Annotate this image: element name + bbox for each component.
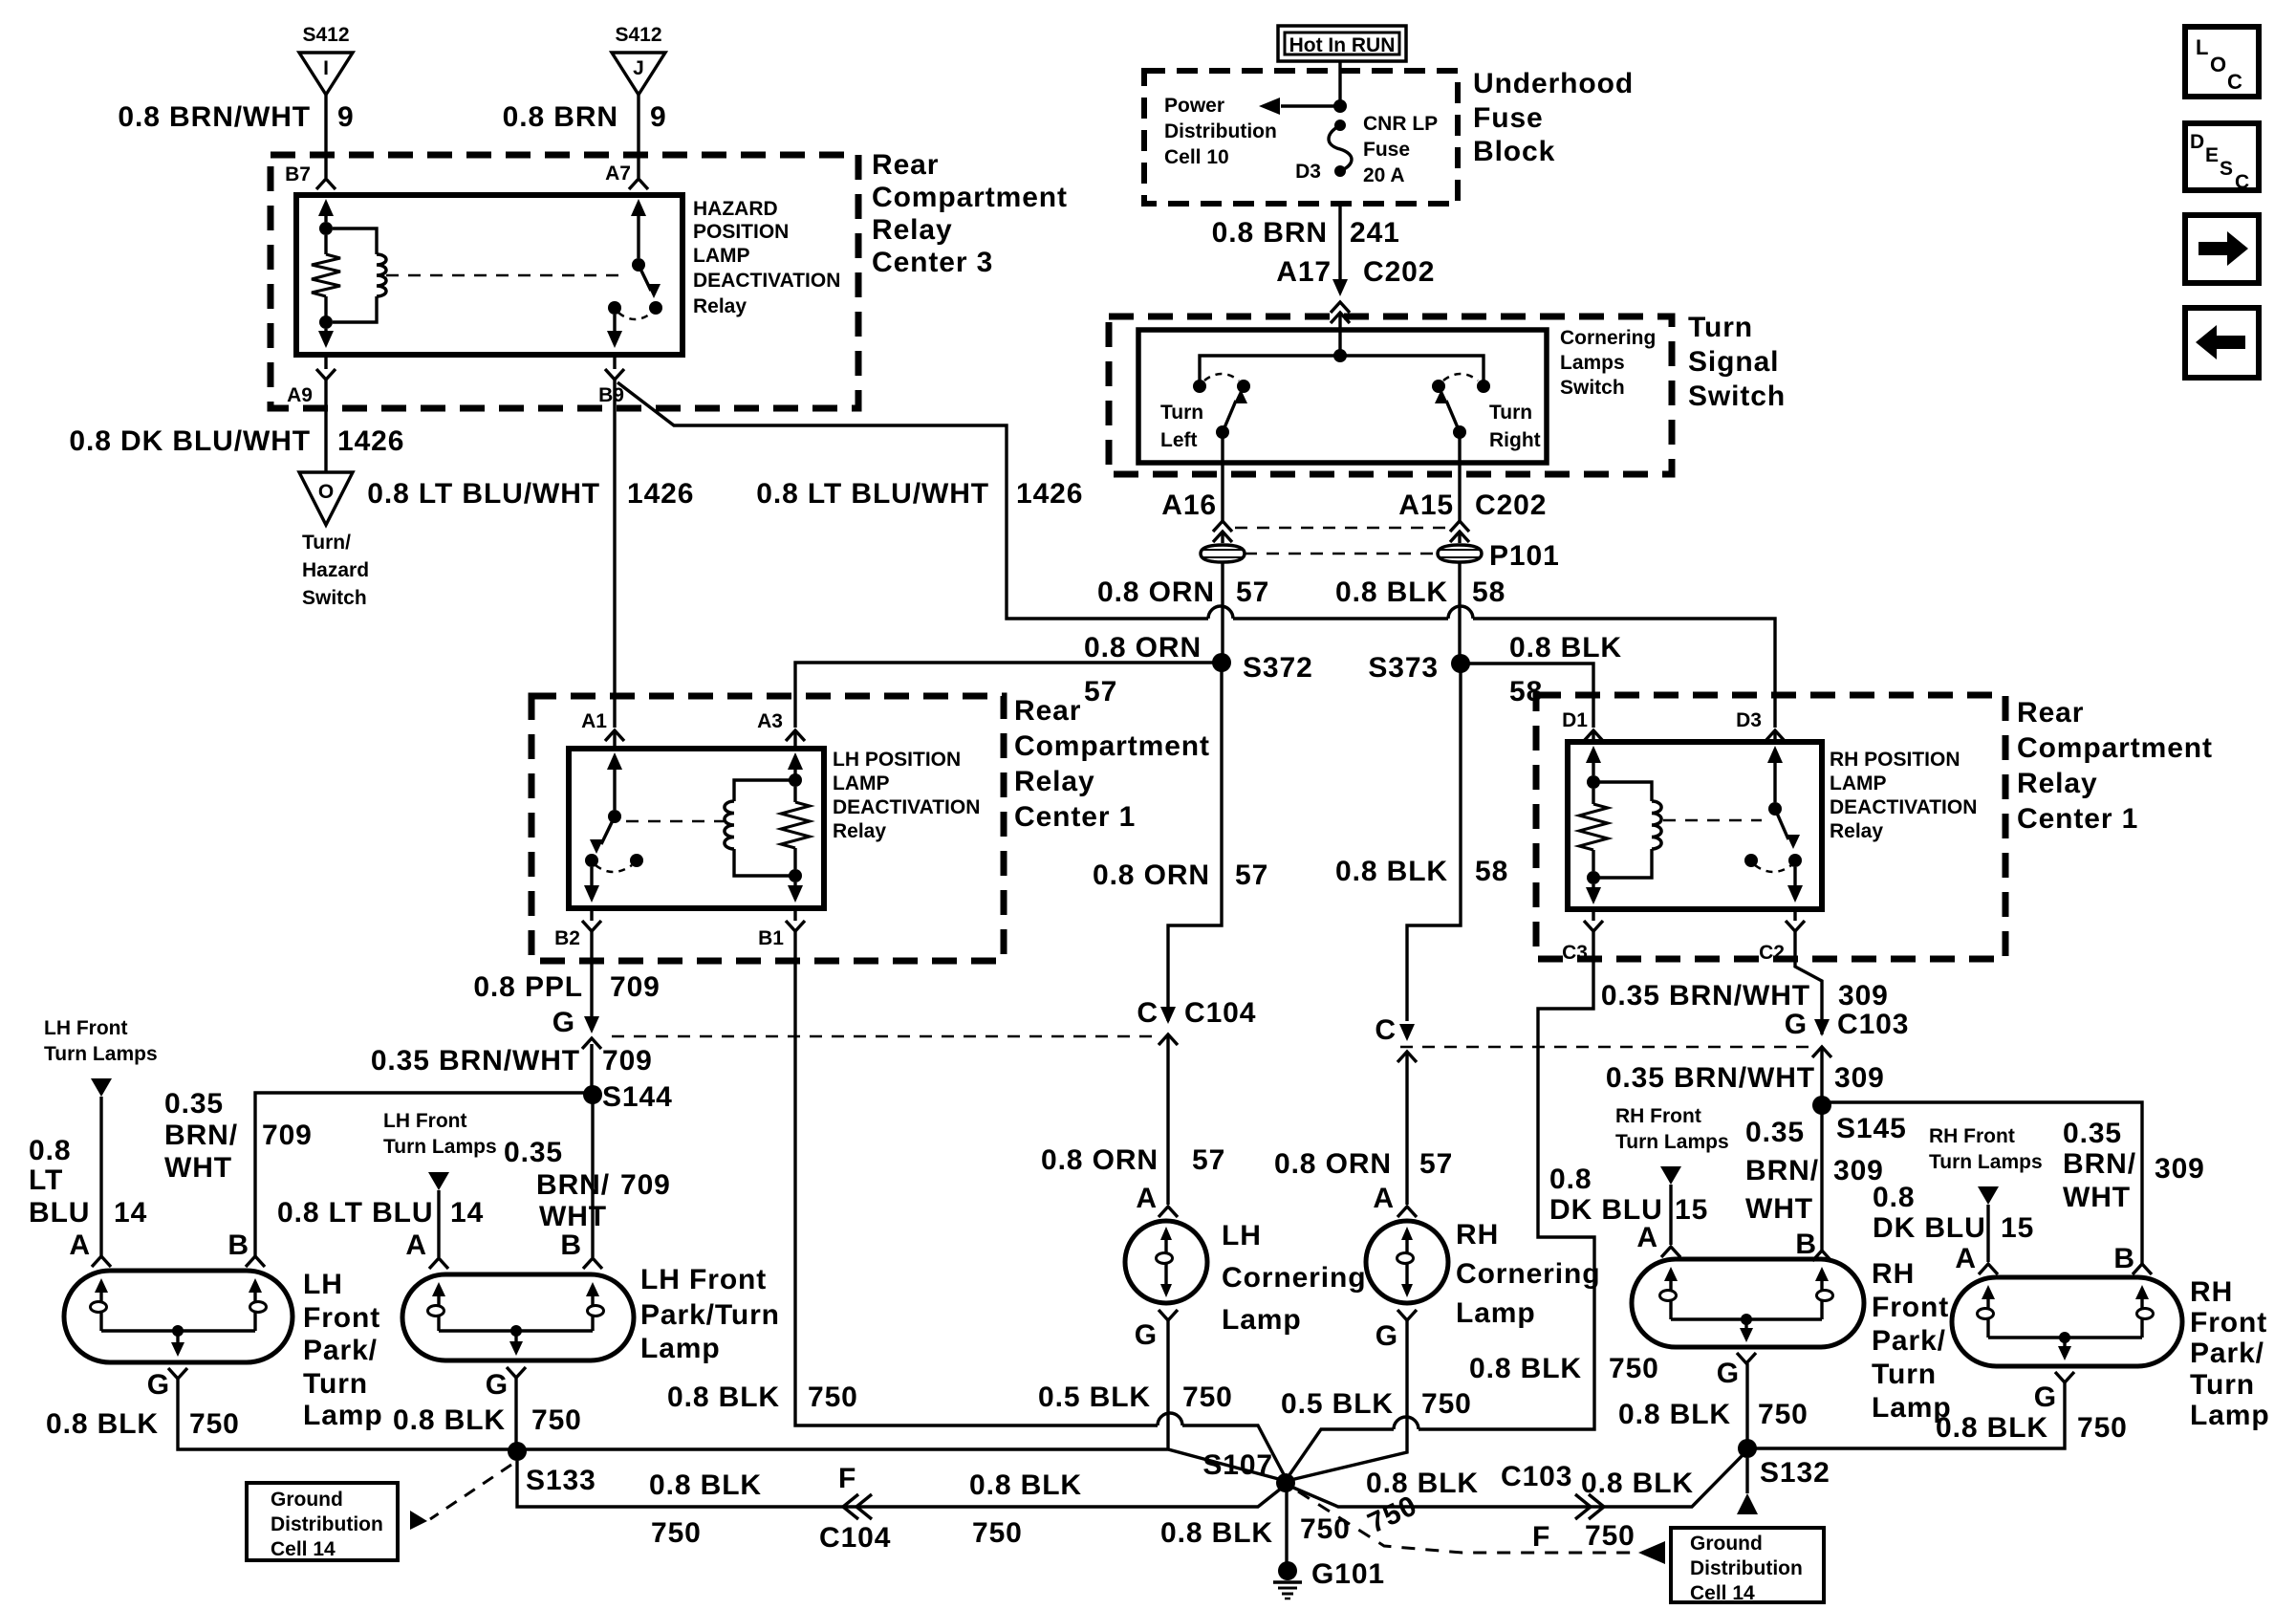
wire to C3 exit xyxy=(1592,884,1594,894)
right arrow icon box xyxy=(2185,215,2259,283)
svg-text:0.35 BRN/WHT: 0.35 BRN/WHT xyxy=(371,1045,580,1077)
svg-text:Park/: Park/ xyxy=(303,1335,378,1366)
svg-text:L: L xyxy=(2196,35,2208,59)
svg-text:A9: A9 xyxy=(287,384,313,406)
wire turn left to A16 xyxy=(1221,432,1224,521)
svg-text:BLU: BLU xyxy=(29,1197,90,1229)
svg-text:F: F xyxy=(1532,1521,1550,1553)
svg-text:C2: C2 xyxy=(1759,942,1785,964)
relay contact (to B9) xyxy=(608,301,621,315)
svg-text:S: S xyxy=(2220,158,2233,180)
svg-text:Switch: Switch xyxy=(302,587,367,609)
svg-text:750: 750 xyxy=(1182,1382,1233,1413)
wire Hot In RUN to fuse block xyxy=(1338,61,1341,106)
wire S372 to LH cornering lamp xyxy=(1168,663,1222,1021)
node (switch common) xyxy=(1333,349,1347,362)
svg-text:Compartment: Compartment xyxy=(872,182,1068,213)
Turn Signal Switch dashed box xyxy=(1109,316,1672,474)
svg-text:Lamps: Lamps xyxy=(1560,352,1625,374)
wire contact to C2 exit xyxy=(1793,867,1796,893)
relay LH position lamp deactivation box xyxy=(569,749,824,908)
svg-text:309: 309 xyxy=(2155,1153,2205,1185)
splice S132 xyxy=(1738,1439,1757,1458)
svg-text:D3: D3 xyxy=(1736,709,1762,731)
relay RH contact travel arc xyxy=(1755,865,1791,872)
svg-text:C202: C202 xyxy=(1475,490,1547,521)
svg-text:B: B xyxy=(227,1229,249,1261)
svg-text:14: 14 xyxy=(114,1197,147,1229)
svg-text:Switch: Switch xyxy=(1560,377,1625,399)
svg-text:Cell 14: Cell 14 xyxy=(271,1538,336,1560)
relay RH coil xyxy=(1593,782,1652,801)
svg-text:0.8 BLK: 0.8 BLK xyxy=(1335,577,1448,608)
svg-text:0.8 BRN: 0.8 BRN xyxy=(1212,217,1328,249)
svg-text:241: 241 xyxy=(1350,217,1400,249)
wire contact to B9 exit xyxy=(613,315,616,340)
svg-text:A: A xyxy=(1136,1183,1158,1214)
relay RH position lamp deactivation box xyxy=(1568,742,1822,909)
svg-text:Distribution: Distribution xyxy=(1690,1557,1803,1579)
relay RH contact (to C2) xyxy=(1788,854,1802,867)
connector P101 (right pass-through) xyxy=(1438,545,1482,562)
Rear Compartment Relay Center 3 dashed box xyxy=(271,155,858,408)
svg-text:0.8: 0.8 xyxy=(29,1135,71,1166)
svg-text:O: O xyxy=(318,481,334,503)
svg-text:0.8 ORN: 0.8 ORN xyxy=(1274,1148,1392,1180)
svg-text:57: 57 xyxy=(1236,577,1269,608)
relay LH contact (to B2) xyxy=(585,854,598,867)
svg-text:B2: B2 xyxy=(554,927,580,949)
wire C202 to cornering lamps switch xyxy=(1338,313,1341,356)
svg-text:F: F xyxy=(838,1463,856,1494)
svg-text:Relay: Relay xyxy=(2017,768,2098,799)
wire B1 down to S107 xyxy=(795,931,1158,1425)
relay pin D1 entry arrow xyxy=(1586,746,1601,763)
svg-text:Park/Turn: Park/Turn xyxy=(640,1299,780,1331)
svg-text:LAMP: LAMP xyxy=(833,772,890,794)
RH front park/turn lamp 1 xyxy=(1632,1259,1864,1347)
svg-text:750: 750 xyxy=(651,1517,702,1549)
Rear Compartment Relay Center 1 dashed box (RH) xyxy=(1536,695,2005,959)
svg-text:CNR LP: CNR LP xyxy=(1363,113,1438,135)
wire B9 branch to D3 (1426) xyxy=(617,382,1208,619)
svg-text:RH Front: RH Front xyxy=(1615,1105,1701,1127)
svg-text:BRN/: BRN/ xyxy=(164,1120,238,1151)
svg-text:Center 1: Center 1 xyxy=(1014,801,1136,833)
wire B9 down to A1 xyxy=(613,380,616,728)
svg-text:S133: S133 xyxy=(526,1465,596,1496)
svg-text:0.5 BLK: 0.5 BLK xyxy=(1038,1382,1151,1413)
svg-text:I: I xyxy=(323,57,329,79)
relay coil (hazard relay) xyxy=(333,228,377,254)
svg-text:0.8 BLK: 0.8 BLK xyxy=(393,1404,506,1436)
svg-text:Relay: Relay xyxy=(833,820,886,842)
svg-text:0.8 BLK: 0.8 BLK xyxy=(1469,1353,1582,1384)
svg-text:0.8 ORN: 0.8 ORN xyxy=(1093,859,1210,891)
wire P101 to S373 xyxy=(1458,562,1461,664)
wire S107 to S132 (C103 F) xyxy=(1287,1450,1747,1507)
wire C103 to S145 xyxy=(1820,1047,1823,1105)
wire S144 to LH2 lamp B xyxy=(591,1095,594,1257)
svg-text:709: 709 xyxy=(262,1120,313,1151)
node coil bottom (RH) xyxy=(1587,871,1600,884)
svg-text:57: 57 xyxy=(1419,1148,1453,1180)
wire RH2 G to S132 xyxy=(1747,1382,2065,1448)
splice S145 xyxy=(1812,1096,1831,1115)
svg-text:57: 57 xyxy=(1084,676,1117,707)
svg-text:1426: 1426 xyxy=(337,425,404,457)
svg-text:9: 9 xyxy=(337,101,355,133)
svg-text:C: C xyxy=(1137,997,1159,1029)
svg-text:0.8 BLK: 0.8 BLK xyxy=(1581,1468,1694,1499)
svg-text:Turn: Turn xyxy=(1489,402,1532,424)
svg-text:RH Front: RH Front xyxy=(1929,1125,2015,1147)
svg-text:Right: Right xyxy=(1489,429,1541,451)
svg-text:B1: B1 xyxy=(758,927,784,949)
svg-text:Center 3: Center 3 xyxy=(872,247,993,278)
svg-text:C202: C202 xyxy=(1363,256,1435,288)
svg-text:0.8 BLK: 0.8 BLK xyxy=(46,1408,159,1440)
wire A15 to P101 xyxy=(1458,532,1461,543)
relay LH contact dashed link xyxy=(626,820,724,823)
svg-text:Lamp: Lamp xyxy=(2190,1400,2270,1431)
relay contact dashed link xyxy=(386,274,627,277)
wire S412-I to B7 xyxy=(324,95,327,178)
contact (turn right fixed) xyxy=(1477,380,1490,393)
svg-text:Relay: Relay xyxy=(1830,820,1883,842)
relay pin D3 entry arrow xyxy=(1767,746,1783,763)
svg-text:0.35 BRN/WHT: 0.35 BRN/WHT xyxy=(1601,980,1810,1012)
switch common bus xyxy=(1200,356,1484,384)
LH cornering lamp filament xyxy=(1160,1227,1172,1240)
wire RH cornering G to S107 xyxy=(1287,1320,1407,1481)
relay switch arm xyxy=(639,265,651,291)
svg-text:E: E xyxy=(2205,144,2219,166)
svg-text:0.8 BRN/WHT: 0.8 BRN/WHT xyxy=(118,101,311,133)
RH2 filament A xyxy=(1982,1285,1995,1299)
svg-text:B7: B7 xyxy=(285,163,311,185)
wire turn right to A15 xyxy=(1458,432,1461,521)
svg-text:Compartment: Compartment xyxy=(2017,732,2213,764)
LH front park/turn lamp 1 xyxy=(64,1271,292,1362)
Underhood Fuse Block dashed box xyxy=(1144,71,1458,204)
svg-text:S107: S107 xyxy=(1202,1449,1273,1481)
svg-text:HAZARD: HAZARD xyxy=(693,198,778,220)
wire LH1 G to ground bus xyxy=(178,1379,517,1449)
svg-text:DK BLU: DK BLU xyxy=(1873,1212,1986,1244)
svg-text:Turn/: Turn/ xyxy=(302,532,351,554)
dashed ref S133 to ground cell 14 (left) xyxy=(430,1465,511,1519)
svg-text:WHT: WHT xyxy=(1745,1193,1813,1225)
RH2 common bus xyxy=(1988,1336,2142,1338)
svg-text:57: 57 xyxy=(1235,859,1268,891)
svg-text:0.8 BLK: 0.8 BLK xyxy=(1509,632,1622,664)
svg-text:C: C xyxy=(1375,1014,1397,1046)
svg-text:A: A xyxy=(1636,1222,1658,1253)
svg-text:BRN/: BRN/ xyxy=(536,1169,610,1201)
svg-text:C104: C104 xyxy=(1184,997,1256,1029)
LH2 filament A xyxy=(432,1282,445,1296)
svg-text:Lamp: Lamp xyxy=(1222,1304,1302,1336)
svg-text:C: C xyxy=(2227,70,2242,94)
svg-text:Turn: Turn xyxy=(1160,402,1203,424)
svg-text:Hazard: Hazard xyxy=(302,559,369,581)
wire S373 to D1 xyxy=(1461,664,1593,728)
node (fuse feed) xyxy=(1333,99,1347,113)
svg-text:14: 14 xyxy=(450,1197,484,1229)
svg-text:0.35: 0.35 xyxy=(2063,1118,2122,1149)
svg-text:C: C xyxy=(2235,171,2249,193)
svg-text:Block: Block xyxy=(1473,136,1555,167)
svg-text:A17: A17 xyxy=(1276,256,1332,288)
svg-text:58: 58 xyxy=(1472,577,1505,608)
RH1 common bus xyxy=(1671,1317,1822,1320)
splice S107 xyxy=(1276,1473,1295,1492)
svg-text:C103: C103 xyxy=(1501,1461,1572,1492)
wire P101 to S372 xyxy=(1221,562,1224,663)
svg-text:Underhood: Underhood xyxy=(1473,68,1634,99)
svg-text:0.8 LT BLU: 0.8 LT BLU xyxy=(277,1197,433,1229)
svg-text:Ground: Ground xyxy=(1690,1533,1763,1555)
wire S412-J to A7 xyxy=(637,95,639,178)
relay LH switch pivot xyxy=(608,810,621,823)
wire D1 into relay xyxy=(1592,730,1594,742)
svg-text:LT: LT xyxy=(29,1164,63,1196)
svg-text:G: G xyxy=(147,1369,170,1401)
wire C103 to RH cornering lamp A xyxy=(1405,1052,1408,1205)
resistor (relay LH internal) xyxy=(793,787,796,802)
off-page triangle (LH2 turn feed) xyxy=(428,1172,449,1190)
svg-text:57: 57 xyxy=(1192,1144,1225,1176)
Rear Compartment Relay Center 1 dashed box (LH) xyxy=(531,696,1004,961)
svg-text:750: 750 xyxy=(2077,1412,2128,1444)
relay LH contact (n.o.) xyxy=(630,854,643,867)
svg-text:WHT: WHT xyxy=(539,1201,607,1232)
svg-text:750: 750 xyxy=(1758,1399,1809,1430)
wire D3 into relay xyxy=(1773,730,1776,742)
svg-text:Turn: Turn xyxy=(1688,312,1753,343)
RH cornering lamp xyxy=(1366,1221,1448,1303)
RH1 filament B xyxy=(1815,1267,1829,1281)
wire S373 to RH cornering lamp xyxy=(1407,664,1461,1021)
svg-text:0.8: 0.8 xyxy=(1873,1182,1915,1213)
splice S144 xyxy=(583,1085,602,1104)
svg-text:B: B xyxy=(560,1229,582,1261)
svg-text:B: B xyxy=(2113,1243,2135,1274)
contact (turn left n.o.) xyxy=(1237,380,1250,393)
svg-text:DEACTIVATION: DEACTIVATION xyxy=(1830,796,1977,818)
svg-text:DEACTIVATION: DEACTIVATION xyxy=(833,796,980,818)
svg-text:Turn: Turn xyxy=(1872,1359,1937,1390)
svg-text:S132: S132 xyxy=(1760,1457,1830,1489)
left arrow icon box xyxy=(2185,308,2259,378)
svg-text:Compartment: Compartment xyxy=(1014,730,1210,762)
svg-text:G: G xyxy=(1717,1358,1740,1389)
LH front park/turn lamp 2 xyxy=(402,1274,634,1360)
svg-text:G: G xyxy=(1375,1320,1398,1352)
LH1 filament B xyxy=(249,1278,262,1293)
svg-text:LAMP: LAMP xyxy=(693,245,750,267)
svg-text:S144: S144 xyxy=(602,1081,673,1113)
turn left travel arc xyxy=(1204,374,1239,381)
svg-text:J: J xyxy=(633,57,644,79)
svg-text:750: 750 xyxy=(1609,1353,1659,1384)
dashed ref S107 to ground cell 14 (right) xyxy=(1298,1491,1636,1553)
relay RH contact dashed link xyxy=(1663,819,1762,822)
wire C2 to connector C103 xyxy=(1795,931,1822,1034)
svg-text:RH POSITION: RH POSITION xyxy=(1830,749,1960,771)
svg-text:Relay: Relay xyxy=(872,214,953,246)
svg-text:Cell 14: Cell 14 xyxy=(1690,1582,1755,1604)
wire coil-bottom to A9 exit xyxy=(324,329,327,340)
Hot In RUN power tag xyxy=(1278,26,1406,61)
svg-text:15: 15 xyxy=(2001,1212,2034,1244)
wire to B1 exit xyxy=(793,882,796,893)
svg-text:C104: C104 xyxy=(819,1522,891,1554)
relay contact (n.o.) xyxy=(649,301,662,315)
svg-text:0.8 ORN: 0.8 ORN xyxy=(1041,1144,1159,1176)
svg-text:709: 709 xyxy=(602,1045,653,1077)
svg-text:Ground: Ground xyxy=(271,1489,343,1511)
svg-text:LH: LH xyxy=(303,1269,343,1300)
fuse CNR LP 20A xyxy=(1334,120,1346,131)
svg-text:A1: A1 xyxy=(581,710,607,732)
wire S144 to LH1 lamp B xyxy=(255,1093,593,1256)
wire S145 to RH2 lamp B xyxy=(1822,1102,2142,1264)
relay RH switch pivot xyxy=(1768,802,1782,816)
svg-text:C103: C103 xyxy=(1837,1009,1909,1040)
splice S373 xyxy=(1451,654,1470,673)
wire RH1 G to S132 xyxy=(1745,1363,1748,1448)
splice S133 xyxy=(508,1442,527,1461)
svg-text:Lamp: Lamp xyxy=(640,1333,721,1364)
svg-text:S145: S145 xyxy=(1836,1113,1907,1144)
svg-text:B9: B9 xyxy=(598,384,624,406)
off-page triangle (RH1 turn feed) xyxy=(1660,1166,1681,1185)
LH2 filament B xyxy=(586,1282,599,1296)
wire B2 down to connector C104 xyxy=(590,931,593,1017)
svg-text:Relay: Relay xyxy=(1014,766,1095,797)
off-page triangle (RH2 turn feed) xyxy=(1978,1186,1999,1205)
svg-text:C3: C3 xyxy=(1562,942,1588,964)
svg-text:0.8 BLK: 0.8 BLK xyxy=(1160,1517,1273,1549)
svg-text:750: 750 xyxy=(1585,1520,1635,1552)
wire C104 to LH cornering lamp A xyxy=(1166,1034,1169,1205)
wire fuse to C202 xyxy=(1338,204,1341,283)
svg-text:Rear: Rear xyxy=(872,149,939,181)
svg-text:S372: S372 xyxy=(1243,652,1313,684)
off-page triangle O (turn/hazard switch) xyxy=(299,472,353,525)
contact (turn left fixed) xyxy=(1193,380,1206,393)
svg-text:Left: Left xyxy=(1160,429,1198,451)
svg-text:Cornering: Cornering xyxy=(1222,1262,1366,1294)
svg-text:Signal: Signal xyxy=(1688,346,1779,378)
svg-text:309: 309 xyxy=(1838,980,1889,1012)
node coil bottom (LH) xyxy=(789,869,802,882)
svg-text:Relay: Relay xyxy=(693,295,747,317)
wire A16 to P101 xyxy=(1221,532,1224,543)
svg-text:0.8 LT BLU/WHT: 0.8 LT BLU/WHT xyxy=(756,478,989,510)
svg-text:A: A xyxy=(405,1229,427,1261)
svg-text:Switch: Switch xyxy=(1688,381,1786,412)
node coil top (RH) xyxy=(1587,775,1600,789)
svg-text:750: 750 xyxy=(189,1408,240,1440)
svg-text:Lamp: Lamp xyxy=(1456,1297,1536,1329)
relay switch pivot (from A7) xyxy=(637,212,639,258)
ground bus S133 to S107 xyxy=(517,1449,1286,1481)
wire A9 to turn/hazard switch xyxy=(324,380,327,472)
svg-text:0.8 BRN: 0.8 BRN xyxy=(503,101,618,133)
svg-text:709: 709 xyxy=(610,971,661,1003)
svg-text:O: O xyxy=(2210,53,2226,76)
svg-text:Hot In RUN: Hot In RUN xyxy=(1289,34,1396,56)
svg-text:0.8 BLK: 0.8 BLK xyxy=(1618,1399,1731,1430)
wire C3 to S107 (ground) xyxy=(1419,931,1594,1429)
wire LH2 G to S133 xyxy=(514,1378,517,1449)
svg-text:Turn Lamps: Turn Lamps xyxy=(1615,1131,1729,1153)
svg-text:0.8 PPL: 0.8 PPL xyxy=(473,971,583,1003)
svg-text:Park/: Park/ xyxy=(1872,1325,1946,1357)
RH front park/turn lamp 2 xyxy=(1952,1277,2182,1366)
svg-text:Rear: Rear xyxy=(2017,697,2084,729)
svg-text:LH Front: LH Front xyxy=(44,1017,127,1039)
svg-text:S373: S373 xyxy=(1368,652,1439,684)
connector C103 dashed line xyxy=(1400,1046,1811,1049)
svg-text:A7: A7 xyxy=(605,163,631,185)
wire S372 to A3 xyxy=(795,663,1222,728)
relay pin A3 entry arrow xyxy=(788,752,803,770)
connector P101 (left pass-through) xyxy=(1201,545,1245,562)
svg-text:Rear: Rear xyxy=(1014,695,1081,727)
svg-text:DEACTIVATION: DEACTIVATION xyxy=(693,270,840,292)
relay pin B7 entry arrow xyxy=(318,199,334,216)
svg-text:Turn Lamps: Turn Lamps xyxy=(383,1136,497,1158)
svg-text:0.8 ORN: 0.8 ORN xyxy=(1097,577,1215,608)
splice S372 xyxy=(1212,653,1231,672)
connector C104 dashed line xyxy=(612,1035,1160,1038)
svg-text:Turn: Turn xyxy=(2190,1369,2255,1401)
contact (turn right n.o.) xyxy=(1432,380,1445,393)
wire to LH2 lamp A xyxy=(437,1190,440,1257)
relay LH coil xyxy=(734,780,795,801)
svg-text:S412: S412 xyxy=(302,24,349,46)
node (coil bottom junction) xyxy=(319,315,333,329)
svg-text:1426: 1426 xyxy=(1016,478,1083,510)
svg-text:BRN/: BRN/ xyxy=(1745,1155,1819,1186)
svg-text:WHT: WHT xyxy=(164,1152,232,1184)
svg-text:Cornering: Cornering xyxy=(1456,1258,1600,1290)
svg-text:G: G xyxy=(2034,1382,2057,1413)
wire S107 to G101 xyxy=(1285,1483,1288,1562)
svg-text:0.35 BRN/WHT: 0.35 BRN/WHT xyxy=(1606,1062,1815,1094)
svg-text:0.8 ORN: 0.8 ORN xyxy=(1084,632,1202,664)
svg-text:750: 750 xyxy=(808,1382,858,1413)
wire LH cornering G to S107 xyxy=(1166,1320,1169,1449)
Cornering Lamps Switch box xyxy=(1138,330,1547,463)
connector P101 dashed link xyxy=(1245,553,1438,555)
svg-text:G101: G101 xyxy=(1311,1558,1385,1590)
resistor (relay K internal) xyxy=(324,235,327,254)
svg-text:20 A: 20 A xyxy=(1363,164,1405,186)
svg-text:0.8 LT BLU/WHT: 0.8 LT BLU/WHT xyxy=(367,478,600,510)
svg-text:A: A xyxy=(1955,1243,1977,1274)
svg-text:Turn: Turn xyxy=(303,1368,368,1400)
svg-text:G: G xyxy=(552,1007,575,1038)
svg-text:G: G xyxy=(1785,1009,1808,1040)
RH1 filament A xyxy=(1664,1267,1678,1281)
svg-text:0.8 BLK: 0.8 BLK xyxy=(1366,1468,1479,1499)
svg-text:POSITION: POSITION xyxy=(693,221,789,243)
